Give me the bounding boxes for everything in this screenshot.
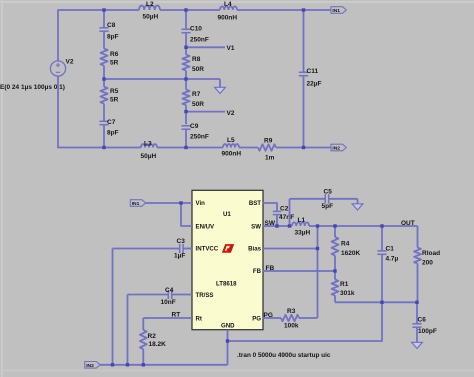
svg-text:10nF: 10nF [161,299,176,306]
svg-text:C8: C8 [107,22,116,29]
svg-text:C10: C10 [190,25,202,32]
svg-text:33µH: 33µH [295,229,311,236]
svg-text:C3: C3 [177,238,186,245]
svg-text:RT: RT [172,312,181,319]
svg-text:OUT: OUT [401,220,415,227]
svg-text:IN2: IN2 [86,363,94,369]
svg-text:R6: R6 [110,51,119,58]
svg-text:5pF: 5pF [322,203,334,210]
svg-text:50µH: 50µH [143,13,159,20]
svg-text:EN/UV: EN/UV [196,224,216,231]
svg-text:1µF: 1µF [174,253,185,260]
svg-text:301k: 301k [340,290,355,297]
svg-text:47nF: 47nF [279,214,294,221]
svg-text:900nH: 900nH [222,151,242,158]
svg-text:FB: FB [266,265,275,272]
svg-text:250nF: 250nF [190,37,209,44]
svg-text:IN1: IN1 [332,8,340,14]
svg-text:U1: U1 [223,211,231,218]
svg-text:Rload: Rload [422,250,440,257]
svg-text:R9: R9 [264,138,273,145]
svg-text:IN2: IN2 [332,146,340,152]
svg-text:R1: R1 [340,281,349,288]
svg-text:V1: V1 [227,45,235,52]
svg-text:Vin: Vin [196,200,206,207]
svg-text:E(0 24 1µs 100µs 0 1): E(0 24 1µs 100µs 0 1) [0,84,65,91]
svg-text:SW: SW [265,220,276,227]
svg-text:L4: L4 [224,1,232,8]
svg-text:C2: C2 [280,205,289,212]
svg-text:.tran 0 5000u 4900u startup ui: .tran 0 5000u 4900u startup uic [237,352,331,359]
svg-text:SW: SW [251,224,261,231]
svg-text:8pF: 8pF [107,34,119,41]
svg-text:1m: 1m [265,154,275,161]
svg-text:900nH: 900nH [218,15,238,22]
svg-text:R2: R2 [148,333,157,340]
svg-text:LT8618: LT8618 [216,281,237,288]
svg-text:100k: 100k [284,322,299,329]
svg-text:50µH: 50µH [141,153,157,160]
svg-text:5R: 5R [110,60,119,67]
svg-text:GND: GND [221,322,235,329]
svg-text:R5: R5 [110,88,119,95]
svg-text:R4: R4 [341,241,350,248]
svg-text:1620K: 1620K [341,250,360,257]
svg-text:C1: C1 [386,245,395,252]
svg-text:L3: L3 [144,141,152,148]
svg-text:4.7µ: 4.7µ [386,255,399,262]
svg-text:TR/SS: TR/SS [196,292,214,299]
svg-text:50R: 50R [192,66,204,73]
svg-text:V2: V2 [227,110,235,117]
svg-text:C4: C4 [165,287,174,294]
svg-text:22µF: 22µF [307,80,322,87]
svg-text:C5: C5 [324,189,333,196]
svg-text:200: 200 [422,260,433,267]
svg-text:C9: C9 [190,123,199,130]
svg-text:R8: R8 [192,56,201,63]
svg-text:L1: L1 [298,217,306,224]
svg-text:C7: C7 [107,119,116,126]
svg-text:100pF: 100pF [418,328,437,335]
svg-text:5R: 5R [110,97,119,104]
svg-text:PG: PG [252,315,261,322]
svg-text:V2: V2 [66,59,74,66]
svg-text:L2: L2 [146,1,154,8]
svg-text:C6: C6 [418,316,427,323]
svg-text:18.2K: 18.2K [149,341,167,348]
svg-text:PG: PG [264,312,273,319]
svg-text:IN1: IN1 [132,201,140,207]
svg-text:BST: BST [249,200,261,207]
svg-text:250nF: 250nF [190,134,209,141]
svg-text:Rt: Rt [196,315,202,322]
svg-text:8pF: 8pF [107,130,119,137]
svg-text:R7: R7 [192,91,201,98]
svg-text:L5: L5 [227,137,235,144]
svg-text:C11: C11 [307,68,319,75]
svg-text:50R: 50R [192,101,204,108]
svg-text:R3: R3 [287,308,296,315]
svg-text:INTVCC: INTVCC [196,245,219,252]
svg-text:FB: FB [253,268,262,275]
svg-text:Bias: Bias [248,245,261,252]
